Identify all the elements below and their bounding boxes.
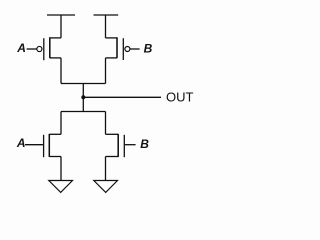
- node OUT junction dot: [81, 95, 85, 99]
- wire Q4 gate to input B: [125, 144, 136, 146]
- wire Q4 source to ground: [105, 157, 107, 181]
- svg-text:OUT: OUT: [166, 89, 194, 104]
- wire input A to Q3 gate: [25, 144, 43, 146]
- transistor Q1 (PMOS, input A): [44, 37, 61, 60]
- wire down to Q4 drain: [105, 112, 107, 135]
- transistor Q4 (NMOS, input B): [106, 134, 125, 157]
- svg-text:A: A: [16, 136, 26, 150]
- wire Q1 drain down: [60, 58, 62, 84]
- ground (right): [94, 181, 118, 193]
- bubble on Q1 gate: [37, 46, 42, 51]
- svg-text:A: A: [16, 41, 26, 55]
- svg-text:B: B: [140, 137, 149, 151]
- wire PMOS drain join bar: [61, 83, 106, 85]
- wire output to OUT label: [83, 96, 161, 98]
- wire input A to Q1 bubble: [27, 48, 37, 50]
- transistor Q3 (NMOS, input A): [44, 134, 61, 157]
- wire Q3 source to ground: [60, 157, 62, 181]
- bubble on Q2 gate: [125, 47, 130, 52]
- wire mid vertical to output node: [82, 84, 84, 112]
- ground (left): [49, 181, 73, 193]
- wire Q2 bubble to input B: [130, 48, 140, 50]
- wire NMOS drain join bar: [61, 111, 106, 113]
- wire VDD to Q2 source: [105, 15, 107, 38]
- wire Q2 drain down: [105, 58, 107, 84]
- transistor Q2 (PMOS, input B): [106, 37, 124, 60]
- svg-text:B: B: [144, 41, 153, 55]
- VDD rail bar (left): [47, 14, 75, 16]
- wire VDD to Q1 source: [60, 15, 62, 38]
- wire down to Q3 drain: [60, 112, 62, 135]
- VDD rail bar (right): [94, 14, 119, 16]
